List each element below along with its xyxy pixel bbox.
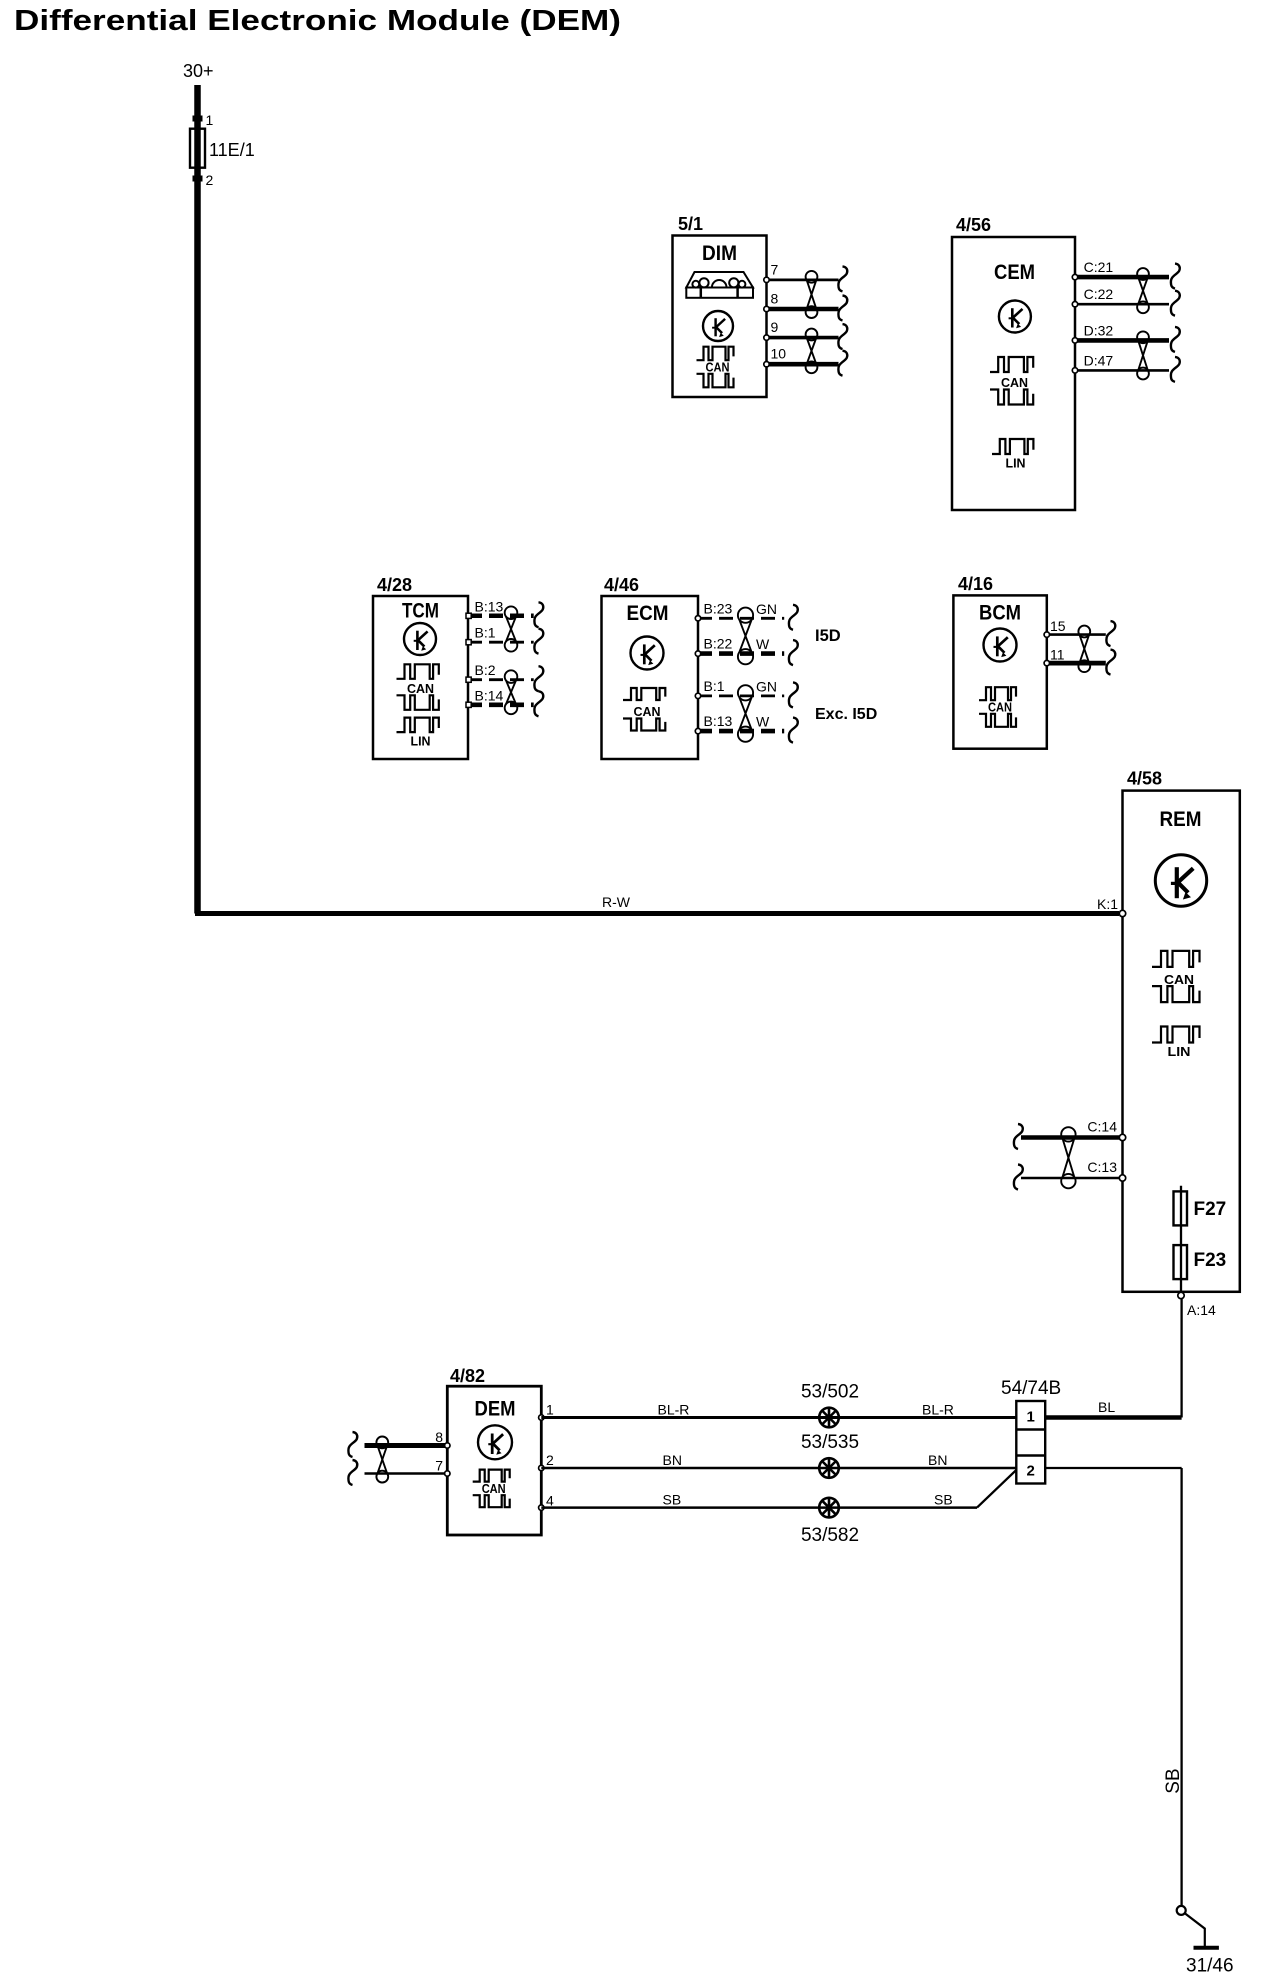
svg-text:11E/1: 11E/1 — [209, 140, 255, 160]
wire inside REM to fuses — [1180, 1186, 1182, 1296]
svg-text:CAN: CAN — [1164, 972, 1194, 987]
DEM pin 8 wire — [365, 1443, 448, 1448]
CEM pin C:22 wire break — [1171, 291, 1180, 316]
REM pin C:14 wire — [1021, 1135, 1123, 1140]
svg-text:REM: REM — [1160, 807, 1202, 831]
fuse F27 — [1174, 1191, 1188, 1225]
CEM CAN icon — [990, 357, 1033, 405]
DEM CAN icon — [473, 1470, 510, 1508]
svg-text:C:21: C:21 — [1084, 259, 1114, 275]
ECM pin B:23 wire (GN) — [698, 617, 784, 620]
CEM pin D:32 wire — [1075, 338, 1169, 343]
svg-text:B:2: B:2 — [475, 662, 496, 678]
REM pin K:1 — [1119, 910, 1125, 916]
REM pin C:13 wire — [1021, 1177, 1123, 1180]
svg-text:Differential Electronic Module: Differential Electronic Module (DEM) — [14, 5, 621, 37]
svg-text:5/1: 5/1 — [678, 214, 703, 234]
svg-text:SB: SB — [663, 1492, 682, 1508]
svg-text:B:13: B:13 — [704, 713, 733, 729]
REM K symbol — [1155, 855, 1206, 906]
svg-text:4/82: 4/82 — [450, 1366, 485, 1386]
svg-text:D:47: D:47 — [1084, 352, 1114, 368]
svg-text:53/535: 53/535 — [801, 1432, 859, 1453]
wire BN (DEM 2 to connector) — [541, 1467, 1016, 1470]
svg-text:31/46: 31/46 — [1186, 1956, 1234, 1977]
svg-text:8: 8 — [771, 291, 779, 307]
svg-text:2: 2 — [206, 172, 214, 188]
wire SB (DEM 4 to connector) — [541, 1506, 977, 1509]
svg-text:CAN: CAN — [634, 705, 661, 719]
TCM pin B:2 wire — [468, 678, 534, 681]
svg-text:4/58: 4/58 — [1127, 769, 1162, 789]
splice 53/582 — [819, 1498, 839, 1518]
CEM K symbol — [999, 301, 1031, 333]
twisted pair CEM C:21/C:22 — [1137, 268, 1149, 313]
svg-text:9: 9 — [771, 319, 779, 335]
svg-text:4/16: 4/16 — [958, 574, 993, 594]
svg-text:11: 11 — [1050, 646, 1065, 662]
ECM CAN icon — [623, 688, 665, 731]
ECM pin B:1 wire (GN) — [698, 695, 784, 698]
ECM K symbol — [631, 637, 664, 670]
twisted pair CEM D:32/D:47 — [1137, 331, 1149, 379]
REM pin C:14 wire break — [1014, 1124, 1023, 1149]
TCM pin B:1 wire break — [534, 629, 543, 654]
fuse F23 — [1174, 1245, 1188, 1279]
svg-text:LIN: LIN — [1006, 456, 1026, 470]
fuse 11E/1 — [190, 129, 205, 168]
svg-text:W: W — [756, 714, 770, 730]
svg-text:BN: BN — [928, 1452, 947, 1468]
BCM CAN icon — [979, 687, 1016, 727]
svg-text:LIN: LIN — [1168, 1044, 1191, 1059]
DIM pin 9 wire — [767, 336, 839, 340]
wire from connector 2 to vertical — [1045, 1467, 1181, 1469]
svg-text:C:13: C:13 — [1087, 1159, 1117, 1175]
fuse 11E/1 pin 2 — [193, 176, 203, 182]
twisted pair REM C:14/C:13 — [1061, 1127, 1075, 1188]
DIM pin 10 wire — [767, 362, 839, 367]
BCM pin 15 wire break — [1106, 621, 1115, 646]
svg-text:B:1: B:1 — [475, 625, 496, 641]
svg-text:4/46: 4/46 — [604, 575, 639, 595]
TCM pin B:13 wire break — [534, 602, 543, 627]
svg-text:1: 1 — [1027, 1409, 1035, 1426]
twisted pair DEM 8/7 — [376, 1437, 388, 1483]
svg-text:B:14: B:14 — [475, 687, 504, 703]
svg-text:CAN: CAN — [1001, 376, 1028, 390]
svg-text:I5D: I5D — [815, 627, 841, 645]
svg-text:B:13: B:13 — [475, 598, 504, 614]
svg-text:30+: 30+ — [183, 61, 214, 81]
svg-text:C:22: C:22 — [1084, 286, 1114, 302]
ECM pin B:22 wire (W) — [698, 651, 784, 656]
svg-text:8: 8 — [435, 1429, 443, 1445]
twisted pair TCM B:13/B:1 — [505, 606, 518, 651]
svg-text:2: 2 — [546, 1452, 554, 1468]
DIM K symbol — [703, 311, 733, 341]
splice 53/535 — [819, 1458, 839, 1478]
TCM pin B:1 wire — [468, 641, 534, 644]
svg-text:Exc. I5D: Exc. I5D — [815, 706, 877, 723]
TCM pin B:2 wire break — [534, 666, 543, 691]
DEM K symbol — [478, 1425, 512, 1459]
DIM instrument cluster icon — [686, 272, 753, 298]
svg-text:D:32: D:32 — [1084, 322, 1114, 338]
TCM CAN icon — [397, 664, 439, 710]
svg-text:2: 2 — [1027, 1463, 1035, 1480]
TCM pin B:13 wire — [468, 614, 534, 619]
DIM pin 9 wire break — [838, 324, 847, 349]
svg-text:CAN: CAN — [407, 682, 434, 696]
DIM pin 10 wire break — [838, 351, 847, 376]
ECM pin B:13 wire break — [789, 718, 798, 743]
svg-text:DEM: DEM — [475, 1397, 516, 1421]
svg-text:B:22: B:22 — [704, 636, 733, 652]
ECM pin B:22 wire break — [789, 640, 798, 665]
svg-text:F23: F23 — [1194, 1250, 1227, 1271]
wire BL (connector 1 to junction) — [1045, 1415, 1181, 1420]
svg-text:BN: BN — [663, 1452, 682, 1468]
wire R-W horizontal — [195, 911, 1119, 916]
DEM pin 2 — [539, 1465, 544, 1470]
twisted pair ECM B:23/B:22 — [738, 608, 753, 665]
twisted pair ECM B:1/B:13 — [738, 685, 753, 742]
REM CAN icon — [1152, 951, 1200, 1002]
DIM pin 8 wire — [767, 307, 839, 312]
ground 31/46 — [1177, 1906, 1219, 1948]
REM LIN icon — [1152, 1027, 1200, 1059]
svg-text:ECM: ECM — [627, 601, 669, 625]
svg-text:10: 10 — [771, 346, 787, 362]
CEM pin D:47 wire break — [1171, 357, 1180, 382]
svg-text:BCM: BCM — [979, 601, 1021, 625]
wire from A:14 down to BL junction — [1180, 1299, 1182, 1418]
TCM pin B:14 wire — [468, 702, 534, 707]
svg-text:7: 7 — [435, 1458, 443, 1474]
REM pin A:14 — [1178, 1292, 1184, 1298]
svg-text:W: W — [756, 636, 770, 652]
svg-text:B:23: B:23 — [704, 600, 733, 616]
TCM LIN icon — [397, 718, 439, 749]
wire SB vertical to ground — [1180, 1468, 1182, 1906]
CEM pin C:21 wire break — [1171, 264, 1180, 289]
ECM pin B:23 wire break — [789, 605, 798, 630]
DEM pin 8 wire break — [348, 1432, 357, 1457]
TCM pin B:14 wire break — [534, 691, 543, 716]
DEM pin 7 wire — [365, 1472, 448, 1475]
DEM pin 4 — [539, 1505, 544, 1510]
CEM pin C:22 wire — [1075, 303, 1169, 306]
svg-text:R-W: R-W — [602, 894, 631, 910]
DEM pin 7 wire break — [348, 1460, 357, 1485]
BCM pin 11 wire break — [1106, 650, 1115, 675]
wire SB diagonal to connector pin 2 — [977, 1470, 1016, 1508]
CEM pin D:32 wire break — [1171, 327, 1180, 352]
svg-text:GN: GN — [756, 601, 777, 617]
svg-text:GN: GN — [756, 678, 777, 694]
REM pin C:13 wire break — [1014, 1165, 1023, 1190]
svg-text:B:1: B:1 — [704, 678, 725, 694]
DIM CAN icon — [697, 347, 734, 388]
svg-text:CEM: CEM — [994, 260, 1035, 284]
CEM pin C:21 wire — [1075, 275, 1169, 280]
ECM pin B:13 wire (W) — [698, 729, 784, 734]
BCM K symbol — [984, 629, 1017, 662]
svg-text:4/56: 4/56 — [956, 215, 991, 235]
splice 53/502 — [819, 1408, 839, 1428]
wire 30+ feed vertical — [194, 85, 201, 914]
TCM K symbol — [404, 623, 436, 655]
svg-text:C:14: C:14 — [1087, 1119, 1117, 1135]
DIM pin 7 wire — [767, 278, 839, 281]
svg-text:TCM: TCM — [402, 599, 439, 623]
svg-text:53/582: 53/582 — [801, 1525, 859, 1546]
svg-text:SB: SB — [1163, 1768, 1184, 1793]
svg-text:F27: F27 — [1194, 1199, 1227, 1220]
svg-text:DIM: DIM — [702, 241, 737, 265]
svg-text:54/74B: 54/74B — [1001, 1378, 1061, 1399]
svg-text:4: 4 — [546, 1493, 554, 1509]
svg-text:1: 1 — [546, 1402, 554, 1418]
twisted pair DIM 7/8 — [806, 271, 818, 318]
BCM pin 11 wire — [1047, 661, 1106, 666]
svg-text:BL: BL — [1098, 1399, 1115, 1415]
svg-text:15: 15 — [1050, 618, 1066, 634]
svg-text:BL-R: BL-R — [658, 1402, 690, 1418]
svg-text:4/28: 4/28 — [377, 575, 412, 595]
fuse 11E/1 pin 1 — [193, 116, 203, 122]
svg-text:K:1: K:1 — [1097, 896, 1118, 912]
DIM pin 7 wire break — [838, 266, 847, 291]
svg-text:BL-R: BL-R — [922, 1402, 954, 1418]
DEM pin 1 — [539, 1415, 544, 1420]
svg-text:A:14: A:14 — [1187, 1302, 1216, 1318]
ECM pin B:1 wire break — [789, 682, 798, 707]
DIM pin 8 wire break — [838, 296, 847, 321]
svg-text:CAN: CAN — [706, 361, 730, 375]
svg-text:7: 7 — [771, 261, 779, 277]
twisted pair DIM 9/10 — [806, 329, 818, 374]
CEM LIN icon — [992, 439, 1033, 470]
svg-text:SB: SB — [934, 1492, 953, 1508]
svg-text:CAN: CAN — [988, 701, 1012, 715]
twisted pair BCM 15/11 — [1078, 626, 1090, 673]
wire BL-R (DEM 1 to splice 53/502) — [541, 1416, 1016, 1419]
twisted pair TCM B:2/B:14 — [505, 670, 518, 714]
CEM pin D:47 wire — [1075, 369, 1169, 372]
svg-text:LIN: LIN — [411, 734, 431, 748]
svg-text:1: 1 — [206, 112, 214, 128]
svg-text:53/502: 53/502 — [801, 1382, 859, 1403]
BCM pin 15 wire — [1047, 633, 1106, 636]
svg-text:CAN: CAN — [482, 1482, 506, 1496]
